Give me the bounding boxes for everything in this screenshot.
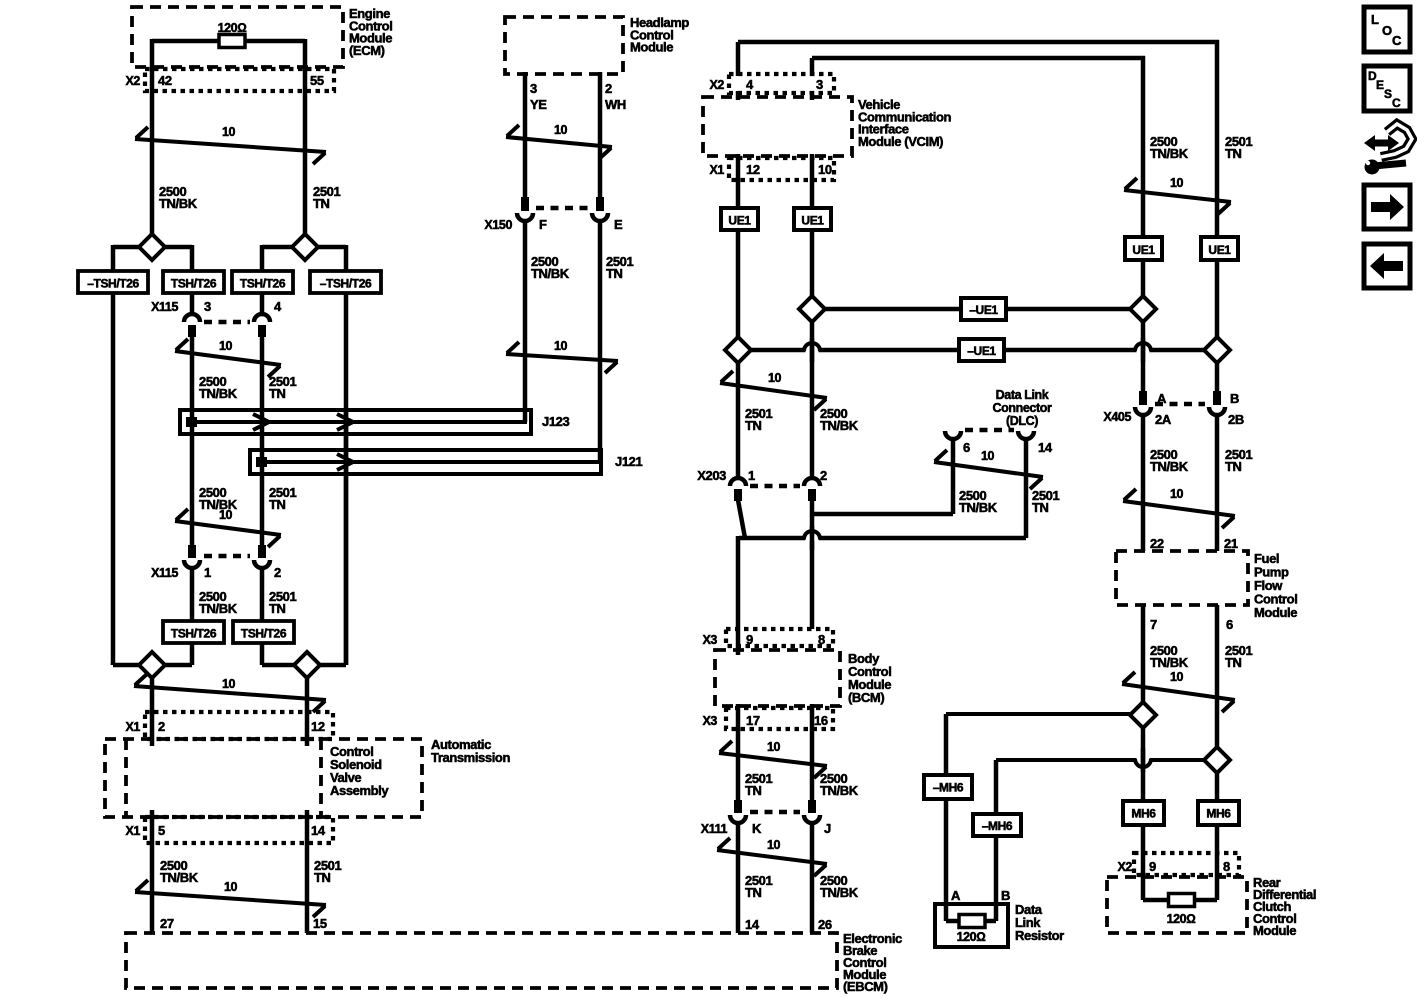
svg-text:8: 8 — [818, 632, 825, 647]
svg-text:X115: X115 — [151, 300, 178, 314]
svg-text:10: 10 — [768, 371, 782, 385]
svg-text:J: J — [824, 821, 831, 836]
svg-text:TSH/T26: TSH/T26 — [171, 277, 217, 291]
svg-text:X1: X1 — [710, 163, 725, 177]
svg-text:1: 1 — [748, 468, 755, 483]
svg-text:(DLC): (DLC) — [1006, 414, 1038, 428]
svg-text:–TSH/T26: –TSH/T26 — [320, 277, 372, 291]
svg-text:TN/BK: TN/BK — [820, 783, 859, 798]
svg-text:A: A — [1157, 391, 1167, 406]
svg-text:42: 42 — [158, 73, 172, 88]
svg-text:TN: TN — [1032, 500, 1049, 515]
svg-text:10: 10 — [219, 339, 233, 353]
svg-text:2: 2 — [820, 468, 827, 483]
svg-text:MH6: MH6 — [1131, 807, 1156, 821]
svg-text:J123: J123 — [542, 414, 569, 429]
svg-text:2A: 2A — [1155, 412, 1172, 427]
svg-text:TN/BK: TN/BK — [159, 196, 198, 211]
svg-text:2: 2 — [274, 565, 281, 580]
svg-text:2: 2 — [158, 719, 165, 734]
svg-text:–MH6: –MH6 — [982, 819, 1013, 833]
svg-text:X111: X111 — [701, 822, 728, 836]
svg-text:Resistor: Resistor — [1015, 928, 1064, 943]
svg-text:UE1: UE1 — [728, 214, 751, 228]
svg-text:10: 10 — [224, 880, 238, 894]
svg-text:X2: X2 — [710, 78, 725, 92]
svg-text:X1: X1 — [126, 824, 141, 838]
svg-text:7: 7 — [1150, 617, 1157, 632]
svg-text:3: 3 — [530, 81, 537, 96]
svg-text:9: 9 — [746, 632, 753, 647]
svg-text:Data Link: Data Link — [996, 388, 1049, 402]
svg-text:X2: X2 — [1118, 860, 1133, 874]
svg-text:14: 14 — [1038, 440, 1053, 455]
svg-text:10: 10 — [222, 677, 236, 691]
svg-text:–MH6: –MH6 — [933, 781, 964, 795]
svg-text:TN: TN — [313, 196, 330, 211]
svg-text:26: 26 — [818, 917, 832, 932]
svg-text:16: 16 — [814, 713, 828, 728]
svg-text:L: L — [1371, 12, 1379, 27]
svg-text:–UE1: –UE1 — [967, 344, 996, 358]
svg-text:10: 10 — [219, 508, 233, 522]
svg-text:Module: Module — [1253, 923, 1296, 938]
svg-text:Module: Module — [630, 40, 673, 55]
svg-text:O: O — [1382, 23, 1392, 38]
svg-text:UE1: UE1 — [801, 214, 824, 228]
svg-text:Module (VCIM): Module (VCIM) — [858, 134, 943, 149]
svg-text:TN: TN — [745, 783, 762, 798]
svg-text:X2: X2 — [126, 74, 141, 88]
svg-text:–TSH/T26: –TSH/T26 — [87, 277, 139, 291]
svg-text:TN: TN — [269, 386, 286, 401]
svg-text:8: 8 — [1223, 859, 1230, 874]
svg-text:K: K — [752, 821, 762, 836]
svg-text:TN: TN — [606, 266, 623, 281]
svg-text:14: 14 — [745, 917, 760, 932]
svg-text:TN/BK: TN/BK — [1150, 459, 1189, 474]
svg-text:TN: TN — [269, 601, 286, 616]
svg-text:(ECM): (ECM) — [349, 43, 385, 58]
svg-text:–UE1: –UE1 — [969, 303, 998, 317]
svg-text:6: 6 — [1226, 617, 1233, 632]
svg-text:Connector: Connector — [993, 401, 1052, 415]
svg-text:B: B — [1001, 888, 1010, 903]
svg-text:120Ω: 120Ω — [1167, 912, 1196, 926]
svg-text:YE: YE — [530, 97, 547, 112]
svg-text:4: 4 — [746, 77, 754, 92]
svg-text:UE1: UE1 — [1132, 243, 1155, 257]
svg-text:TSH/T26: TSH/T26 — [241, 627, 287, 641]
svg-text:TN: TN — [1225, 655, 1242, 670]
svg-text:A: A — [951, 888, 961, 903]
svg-text:14: 14 — [311, 823, 326, 838]
svg-text:TN: TN — [1225, 459, 1242, 474]
svg-text:15: 15 — [313, 916, 327, 931]
svg-text:3: 3 — [204, 299, 211, 314]
svg-text:WH: WH — [605, 97, 626, 112]
svg-text:TN/BK: TN/BK — [531, 266, 570, 281]
svg-text:E: E — [1376, 78, 1384, 92]
svg-text:9: 9 — [1149, 859, 1156, 874]
svg-text:17: 17 — [746, 713, 760, 728]
svg-text:TN/BK: TN/BK — [1150, 146, 1189, 161]
svg-text:10: 10 — [981, 449, 995, 463]
svg-text:X3: X3 — [703, 633, 718, 647]
svg-text:27: 27 — [160, 916, 174, 931]
svg-text:TN: TN — [745, 885, 762, 900]
svg-text:10: 10 — [767, 838, 781, 852]
svg-text:Assembly: Assembly — [330, 783, 389, 798]
svg-text:55: 55 — [310, 73, 324, 88]
svg-text:10: 10 — [818, 162, 832, 177]
svg-text:4: 4 — [274, 299, 282, 314]
svg-text:X1: X1 — [126, 720, 141, 734]
svg-text:S: S — [1384, 87, 1392, 101]
svg-text:X150: X150 — [484, 218, 512, 232]
svg-text:22: 22 — [1150, 536, 1164, 551]
svg-text:2: 2 — [605, 81, 612, 96]
svg-text:10: 10 — [1170, 670, 1184, 684]
svg-text:C: C — [1392, 96, 1401, 110]
svg-text:21: 21 — [1224, 536, 1238, 551]
svg-text:10: 10 — [1170, 176, 1184, 190]
svg-text:TN/BK: TN/BK — [199, 386, 238, 401]
svg-text:10: 10 — [554, 339, 568, 353]
svg-text:(BCM): (BCM) — [848, 690, 884, 705]
svg-text:TN/BK: TN/BK — [199, 601, 238, 616]
svg-text:(EBCM): (EBCM) — [843, 979, 888, 994]
svg-text:120Ω: 120Ω — [218, 21, 247, 35]
svg-text:F: F — [539, 217, 547, 232]
svg-text:TN/BK: TN/BK — [959, 500, 998, 515]
svg-text:TN/BK: TN/BK — [820, 885, 859, 900]
svg-text:E: E — [614, 217, 623, 232]
svg-text:120Ω: 120Ω — [957, 930, 986, 944]
svg-text:12: 12 — [746, 162, 760, 177]
svg-text:MH6: MH6 — [1206, 807, 1231, 821]
svg-text:C: C — [1392, 33, 1402, 48]
svg-text:TN: TN — [1225, 146, 1242, 161]
svg-text:TN/BK: TN/BK — [160, 870, 199, 885]
svg-text:Module: Module — [1254, 605, 1297, 620]
svg-text:Transmission: Transmission — [431, 750, 510, 765]
svg-text:X405: X405 — [1103, 410, 1131, 424]
svg-text:TN: TN — [745, 418, 762, 433]
svg-text:TN: TN — [269, 497, 286, 512]
svg-text:TN/BK: TN/BK — [1150, 655, 1189, 670]
svg-text:6: 6 — [963, 440, 970, 455]
svg-text:J121: J121 — [615, 454, 642, 469]
svg-text:10: 10 — [222, 125, 236, 139]
svg-text:1: 1 — [204, 565, 211, 580]
svg-text:10: 10 — [1170, 487, 1184, 501]
svg-text:10: 10 — [767, 740, 781, 754]
svg-text:UE1: UE1 — [1208, 243, 1231, 257]
svg-text:2B: 2B — [1228, 412, 1244, 427]
svg-text:TSH/T26: TSH/T26 — [240, 277, 286, 291]
svg-text:X203: X203 — [697, 468, 726, 483]
svg-text:B: B — [1230, 391, 1239, 406]
svg-text:5: 5 — [158, 823, 165, 838]
svg-text:10: 10 — [554, 123, 568, 137]
svg-text:TN: TN — [314, 870, 331, 885]
svg-text:12: 12 — [311, 719, 325, 734]
svg-text:X115: X115 — [151, 566, 178, 580]
svg-text:TN/BK: TN/BK — [820, 418, 859, 433]
svg-text:3: 3 — [816, 77, 823, 92]
svg-text:TSH/T26: TSH/T26 — [171, 627, 217, 641]
svg-text:X3: X3 — [703, 714, 718, 728]
